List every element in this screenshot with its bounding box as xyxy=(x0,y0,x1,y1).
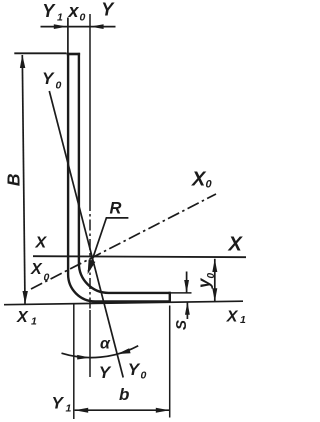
dimension stub S upper xyxy=(186,272,188,293)
arrowhead B bottom (points down) xyxy=(23,291,28,304)
svg-text:x: x xyxy=(68,1,80,21)
svg-text:X: X xyxy=(16,309,29,326)
dimension line B (left vertical) xyxy=(22,55,25,304)
extension line Y1 above profile for x0 dimension xyxy=(67,18,69,54)
svg-text:Y: Y xyxy=(52,394,65,413)
dimension line x0 (top) xyxy=(41,26,116,28)
svg-text:0: 0 xyxy=(141,370,147,382)
svg-text:1: 1 xyxy=(240,314,246,326)
svg-text:X: X xyxy=(228,234,244,256)
extension line at leg top for S dimension xyxy=(171,292,192,294)
dimension stub S lower xyxy=(186,302,188,319)
axis Y (dash-dot middle part through centroid) xyxy=(89,200,91,310)
axis Y (lower solid part down to label) xyxy=(89,310,91,377)
svg-text:0: 0 xyxy=(206,179,213,191)
extension line left below X1 for b dimension xyxy=(73,304,75,420)
svg-text:S: S xyxy=(173,320,190,330)
arrowhead x0 right (points left at Y line) xyxy=(90,24,104,29)
arrowhead alpha right (points left at Y0 axis) xyxy=(117,348,130,354)
axis X0 (principal axis, dash-dot diagonal) xyxy=(31,194,216,289)
svg-text:X: X xyxy=(30,261,43,278)
svg-text:0: 0 xyxy=(80,12,86,24)
svg-text:R: R xyxy=(110,199,122,217)
dimension line b (bottom) xyxy=(75,409,170,411)
arrowhead R leader (points down-left at inner radius) xyxy=(88,260,96,275)
angle profile inner edge (vertical leg right side + inner radius R + leg top edge) xyxy=(79,53,170,293)
svg-text:Y: Y xyxy=(128,360,141,379)
dimension line y0 (right vertical) xyxy=(214,259,216,302)
svg-text:1: 1 xyxy=(57,12,63,24)
svg-text:1: 1 xyxy=(66,403,72,415)
arrowhead x0 left (points right at Y1 line) xyxy=(54,24,68,29)
arrowhead y0 top (points up) xyxy=(212,259,217,272)
arrowhead B top (points up) xyxy=(20,55,25,68)
svg-text:0: 0 xyxy=(44,271,50,283)
svg-text:X: X xyxy=(226,308,239,325)
svg-text:B: B xyxy=(3,173,23,186)
svg-text:Y: Y xyxy=(42,1,56,21)
svg-text:1: 1 xyxy=(31,316,37,328)
axis X1 (bottom datum line along leg bottom) xyxy=(4,301,243,305)
angle profile outer edge (vertical leg left side + outer corner radius + bottom edge) xyxy=(68,53,170,302)
arrowhead S upper (points down) xyxy=(184,280,189,293)
arrowhead b right (points right) xyxy=(156,408,170,413)
arrowhead S lower (points up) xyxy=(185,302,190,315)
axis X (horizontal centroid axis) xyxy=(33,256,246,257)
leader line for R label xyxy=(88,218,128,272)
svg-text:b: b xyxy=(119,385,129,404)
svg-text:α: α xyxy=(100,335,111,352)
extension line right below X1 for b dimension xyxy=(169,306,171,418)
svg-text:0: 0 xyxy=(56,80,62,92)
angle dimension arc alpha xyxy=(62,346,139,358)
axis Y (vertical centroid axis, upper solid part) xyxy=(89,14,91,200)
svg-text:X: X xyxy=(35,234,48,251)
arrowhead alpha left (points right at Y axis) xyxy=(77,355,90,360)
arrowhead y0 bottom (points down) xyxy=(212,288,217,301)
svg-text:Y: Y xyxy=(42,69,55,88)
arrowhead b left (points left) xyxy=(75,408,89,413)
svg-text:Y: Y xyxy=(99,363,112,382)
angle profile top end cap xyxy=(67,53,80,56)
svg-text:Y: Y xyxy=(101,0,115,19)
axis Y0 (principal axis, slanted) xyxy=(49,91,123,378)
extension line, top of profile for B dimension xyxy=(14,52,66,54)
angle profile right end cap of horizontal leg xyxy=(169,292,171,303)
